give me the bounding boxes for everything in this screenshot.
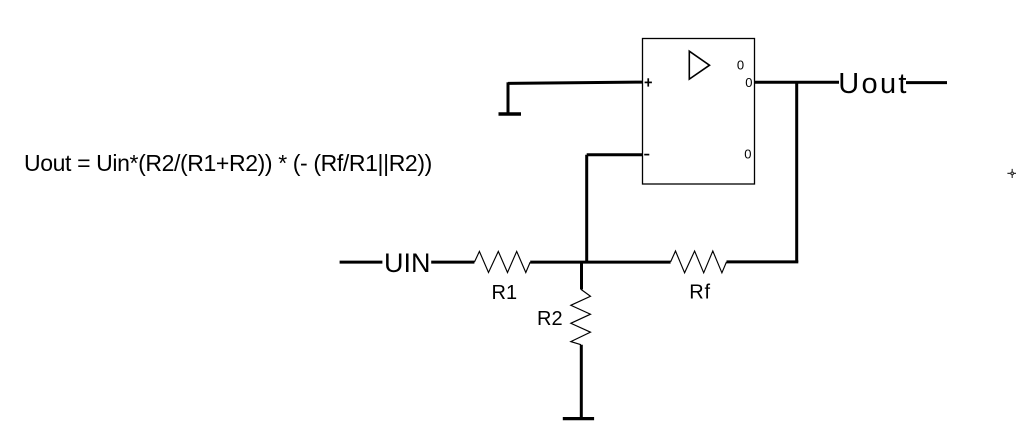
svg-text:Uout = Uin*(R2/(R1+R2)) * (- (: Uout = Uin*(R2/(R1+R2)) * (- (Rf/R1||R2)…: [24, 150, 432, 176]
svg-text:R1: R1: [492, 282, 518, 304]
svg-text:0: 0: [737, 58, 744, 73]
svg-text:UIN: UIN: [384, 248, 431, 278]
svg-text:0: 0: [745, 75, 752, 90]
svg-text:R2: R2: [537, 308, 563, 330]
svg-text:0: 0: [744, 147, 751, 162]
svg-text:Rf: Rf: [689, 281, 711, 303]
svg-text:Uout: Uout: [838, 68, 908, 100]
